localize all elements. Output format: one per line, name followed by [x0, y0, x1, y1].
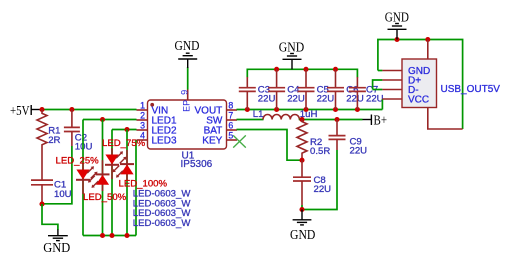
wire top-right gnd rail: [378, 40, 463, 130]
resistor R1: [37, 110, 47, 182]
svg-text:B+: B+: [374, 113, 388, 128]
wire BAT row to R2 bottom: [237, 130, 303, 161]
junction C1/C2/GND: [39, 201, 44, 206]
ground (top right): [385, 9, 409, 39]
USB pin VCC stub: [382, 98, 402, 100]
capacitor C9: [329, 120, 346, 151]
svg-text:6: 6: [228, 120, 233, 130]
USB connector J1 body: [402, 59, 437, 108]
capacitor C3: [239, 77, 256, 110]
LED D2 LED_50%: [88, 160, 110, 191]
wire cap top rail: [247, 69, 357, 77]
port +5V: [10, 103, 41, 118]
wire +5V rail to pin1: [42, 109, 137, 111]
wire pin4 down: [135, 140, 137, 236]
svg-text:2R: 2R: [48, 135, 60, 146]
svg-text:LED_25%: LED_25%: [56, 155, 100, 166]
svg-text:4: 4: [140, 130, 145, 140]
wire C8 to gnd node: [301, 205, 303, 210]
capacitor C1: [31, 180, 53, 204]
wire D- jog: [373, 89, 383, 91]
junction rail/C6: [333, 67, 338, 72]
svg-text:22U: 22U: [317, 93, 335, 104]
junction rail/LED4: [124, 233, 129, 238]
pin 8 VOUT stub: [227, 109, 238, 111]
junction rowB/C9: [334, 117, 339, 122]
wire SW row B left: [237, 119, 264, 121]
svg-text:10U: 10U: [54, 189, 72, 200]
junction rowA/C4: [274, 107, 279, 112]
capacitor C5: [298, 69, 315, 109]
svg-text:22U: 22U: [366, 93, 384, 104]
USB shield pin bottom: [428, 108, 463, 130]
svg-text:2: 2: [140, 110, 145, 120]
wire LED chain 4: [126, 130, 128, 236]
wire LED bottom rail: [83, 235, 136, 237]
junction +5V/R1: [39, 107, 44, 112]
port B+: [363, 113, 388, 128]
USB shield pin top: [427, 40, 429, 60]
pin 1 VIN stub: [137, 109, 148, 111]
svg-text:8: 8: [228, 100, 233, 110]
svg-text:22U: 22U: [287, 93, 305, 104]
capacitor C2: [64, 110, 80, 147]
svg-text:LED-0603_W: LED-0603_W: [133, 218, 192, 229]
junction rail/LED3: [109, 233, 114, 238]
svg-text:IP5306: IP5306: [181, 159, 213, 170]
svg-text:KEY: KEY: [202, 135, 222, 146]
ground (cap rail): [279, 39, 304, 69]
wire LED chain 2: [102, 120, 104, 236]
svg-text:22U: 22U: [350, 145, 368, 156]
junction rowA/C5: [303, 107, 308, 112]
svg-text:USB_OUT5V: USB_OUT5V: [441, 84, 501, 95]
junction R2/C8/BAT: [299, 158, 304, 163]
junction +5V/C2: [69, 107, 74, 112]
inductor L1: [263, 115, 299, 120]
svg-text:5: 5: [228, 130, 233, 140]
wire gnd jog to USB GND pin: [378, 70, 383, 72]
wire C1 node to ground: [42, 204, 58, 230]
no-connect X on KEY: [233, 135, 246, 147]
wire LED2 row (pin3): [112, 129, 137, 131]
junction rowA/C3: [245, 107, 250, 112]
USB pin D- stub: [382, 89, 402, 91]
junction rowA/C7: [355, 107, 360, 112]
svg-text:GND: GND: [385, 9, 409, 24]
LED D4 LED_100%: [113, 150, 135, 181]
wire EP to ground: [187, 67, 189, 90]
svg-text:1: 1: [140, 100, 145, 110]
pin 9 EP stub: [187, 90, 189, 101]
label LED-0603_W list: [133, 189, 192, 229]
junction C8/C9 gnd: [299, 207, 304, 212]
wire LED chain 3: [111, 130, 113, 236]
ground (below C8): [290, 210, 315, 243]
LED D3 LED_75%: [105, 148, 127, 179]
svg-text:22U: 22U: [314, 184, 332, 195]
wire VOUT row A: [237, 109, 383, 111]
pin 7 SW stub: [227, 119, 238, 121]
pin 5 KEY stub: [227, 139, 238, 141]
svg-text:7: 7: [228, 110, 233, 120]
pin 4 LED3 stub: [137, 139, 148, 141]
capacitor C6: [327, 69, 344, 109]
resistor R2: [297, 120, 307, 161]
USB pin GND stub: [382, 70, 402, 72]
svg-text:LED_50%: LED_50%: [83, 192, 127, 203]
svg-text:L1: L1: [253, 109, 264, 120]
svg-text:GND: GND: [290, 227, 315, 242]
pin 2 LED1 stub: [137, 119, 148, 121]
junction pin3 row / LED100: [124, 127, 129, 132]
junction rowB/R2: [299, 117, 304, 122]
junction rail/C4: [274, 67, 279, 72]
pin 1 marker dot: [150, 103, 154, 107]
pin 3 LED2 stub: [137, 129, 148, 131]
svg-text:3: 3: [140, 120, 145, 130]
capacitor C7: [349, 77, 366, 110]
wire D+ jog: [373, 80, 383, 90]
svg-text:0.5R: 0.5R: [310, 146, 330, 157]
junction rail/gnd-symbol: [394, 37, 399, 42]
wire VOUT riser to USB VCC: [381, 99, 383, 110]
svg-text:22U: 22U: [346, 93, 364, 104]
ground (above U1): [175, 38, 200, 68]
svg-text:GND: GND: [175, 38, 200, 53]
wire C2 bottom to C1 node: [42, 146, 72, 204]
LED D1 LED_25%: [76, 163, 98, 194]
junction rail/LED2: [100, 233, 105, 238]
svg-text:GND: GND: [43, 240, 70, 255]
junction rail/shield: [425, 37, 430, 42]
wire C9 bottom to GND node: [302, 150, 337, 210]
wire LED chain 1: [82, 120, 84, 236]
svg-text:22U: 22U: [258, 93, 276, 104]
pin 6 BAT stub: [227, 129, 238, 131]
capacitor C4: [268, 69, 285, 109]
svg-text:GND: GND: [279, 39, 304, 54]
svg-text:+5V: +5V: [10, 103, 30, 118]
wire LED1 row (pin2): [83, 119, 137, 121]
capacitor C8: [293, 160, 311, 205]
junction rowA/C6: [333, 107, 338, 112]
wire SW row B right: [299, 119, 363, 121]
junction rail/C5: [303, 67, 308, 72]
junction pin2 row / LED50: [100, 117, 105, 122]
svg-text:EP: EP: [182, 100, 192, 112]
op-amp U1 IP5306 body: [148, 100, 227, 149]
svg-text:LED3: LED3: [152, 135, 177, 146]
ground (bottom left): [43, 230, 70, 256]
svg-text:9: 9: [179, 90, 189, 95]
svg-text:VCC: VCC: [408, 94, 429, 105]
USB pin D+ stub: [382, 79, 402, 81]
